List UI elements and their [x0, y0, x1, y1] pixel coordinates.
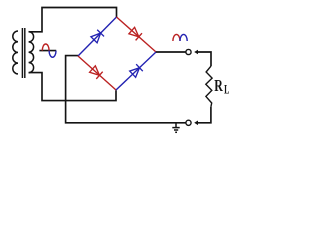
diode D4 (blue)	[129, 64, 142, 77]
diode D2 (red)	[129, 27, 142, 40]
output waveform symbol: first hump (red)	[173, 34, 180, 41]
AC input waveform: negative half-cycle (blue)	[49, 51, 56, 58]
wire: transformer secondary bottom to bridge bottom vertex	[29, 73, 116, 101]
wire: R_L bottom lead to arrow	[197, 107, 211, 123]
wire: transformer secondary top to bridge top vertex	[29, 8, 117, 32]
wire: arrow to R_L top	[197, 52, 211, 66]
output terminal circle (-)	[186, 120, 191, 125]
label R_L	[214, 77, 223, 95]
diode D3 wire (bridge arm: left vertex to bottom vertex, red)	[78, 56, 116, 90]
ground symbol	[172, 123, 179, 133]
AC input waveform: positive half-cycle (red)	[42, 44, 49, 51]
diode D4 wire (bridge arm: bottom vertex to right vertex, blue)	[116, 52, 156, 90]
diode D1 wire (bridge arm: left vertex to top vertex, blue)	[78, 17, 117, 56]
svg-text:R: R	[214, 77, 223, 95]
diode D1 (blue)	[91, 30, 104, 43]
wire: bridge left vertex to ground rail (DC minus)	[66, 56, 186, 123]
AC input waveform: baseline	[39, 50, 56, 52]
resistor R_L zigzag	[206, 66, 212, 107]
diode D3 (red)	[89, 65, 102, 78]
output terminal circle (+)	[186, 49, 191, 54]
svg-text:L: L	[224, 84, 229, 97]
transformer core	[22, 28, 24, 78]
transformer T1 secondary winding	[29, 32, 34, 73]
output waveform symbol: second hump (blue)	[180, 34, 187, 41]
transformer T1 primary winding	[13, 31, 18, 74]
arrow at negative terminal	[194, 121, 198, 126]
arrow at positive terminal	[194, 50, 198, 55]
diode D2 wire (bridge arm: top vertex to right vertex, red)	[117, 17, 157, 52]
wire: bridge right vertex to positive output terminal	[156, 51, 186, 53]
